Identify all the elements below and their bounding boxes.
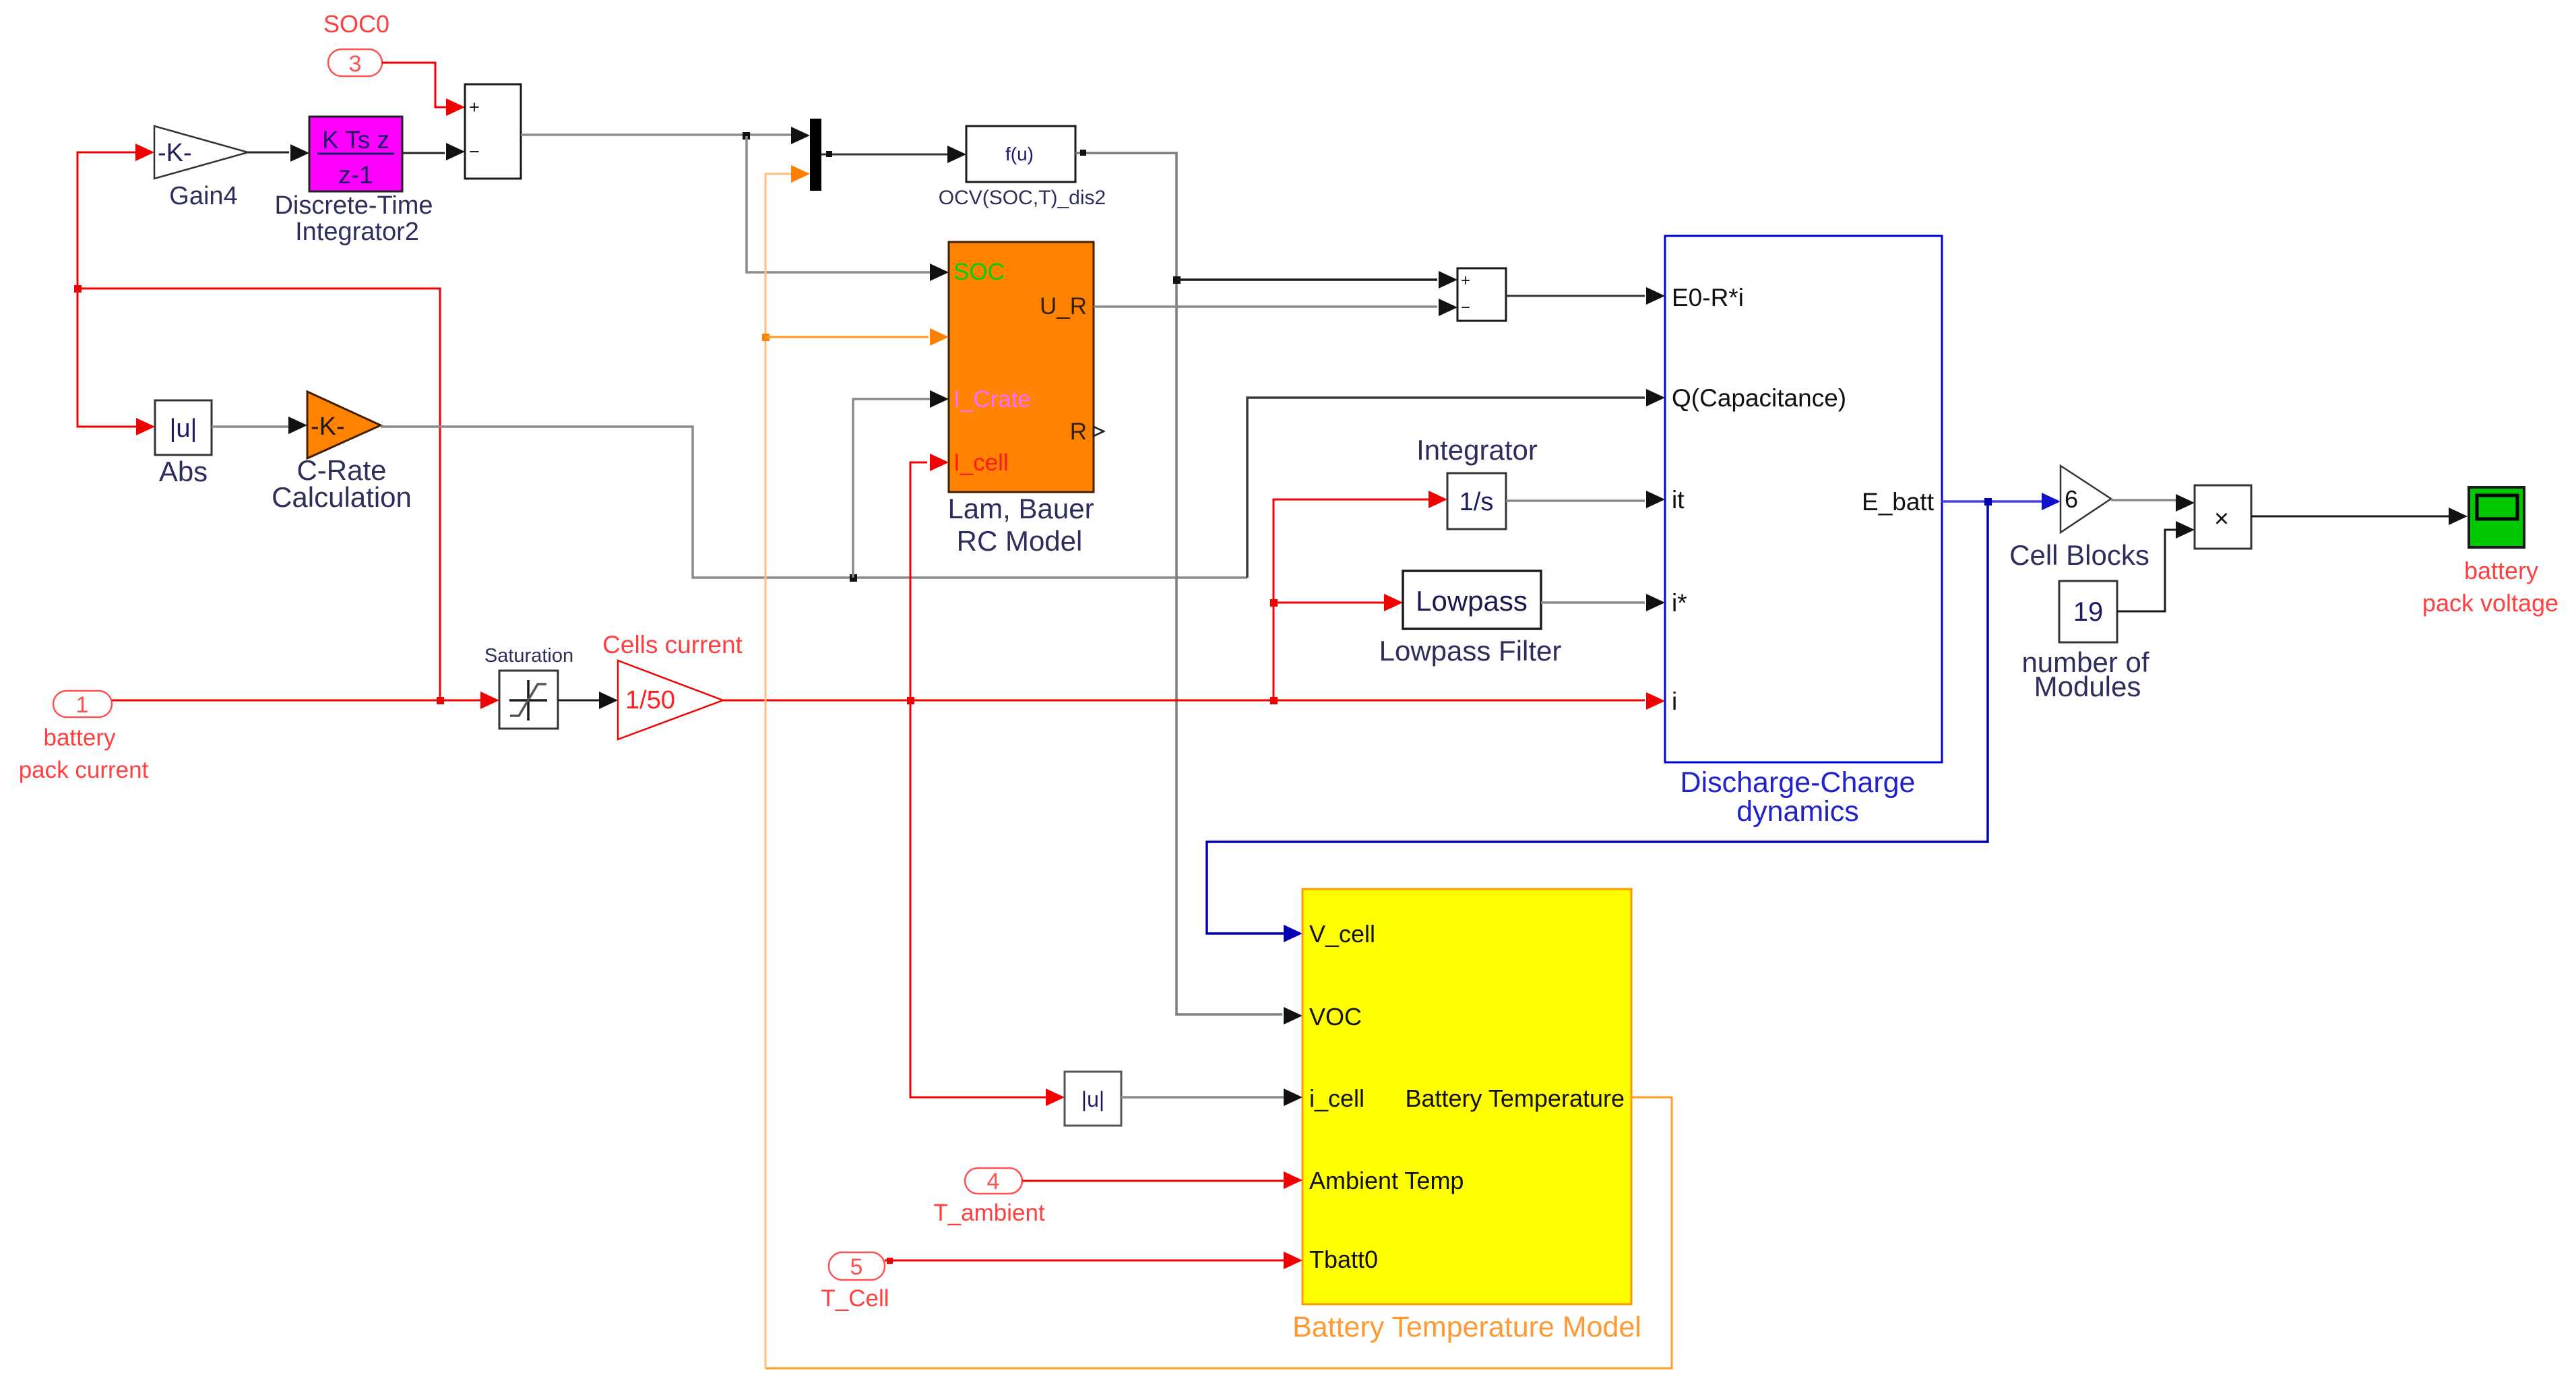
svg-text:Lam, Bauer: Lam, Bauer (947, 493, 1094, 524)
svg-text:-K-: -K- (158, 139, 192, 167)
svg-text:Battery Temperature: Battery Temperature (1406, 1084, 1625, 1112)
inport 4 T_ambient (933, 1168, 1045, 1226)
svg-text:Tbatt0: Tbatt0 (1309, 1246, 1378, 1273)
wire Product to Scope (2251, 508, 2468, 525)
svg-text:z-1: z-1 (338, 161, 373, 189)
wire C-Rate branch up to I_Crate input (853, 390, 949, 578)
svg-text:|u|: |u| (1081, 1087, 1104, 1111)
junction E_batt node (1984, 498, 1992, 506)
svg-text:Gain4: Gain4 (169, 182, 237, 210)
svg-text:−: − (469, 142, 480, 162)
block Discrete-Time Integrator2 (274, 117, 433, 246)
wire battery pack current to Saturation (112, 692, 499, 709)
scope battery pack voltage (2422, 487, 2558, 617)
junction cells current to integrator branch (1270, 697, 1278, 704)
junction C-Rate branch node (850, 574, 857, 582)
wire Cell Blocks to Product input 1 (2111, 494, 2195, 512)
svg-text:|u|: |u| (170, 415, 197, 443)
svg-text:Modules: Modules (2034, 671, 2141, 702)
abs |u| (cell current magnitude) (1065, 1072, 1121, 1126)
subsystem Discharge-Charge dynamics (1665, 236, 1942, 828)
svg-text:+: + (469, 97, 480, 117)
svg-text:-K-: -K- (311, 412, 345, 441)
inport 1 battery pack current (19, 691, 149, 783)
wire battery pack current feedback (red) (77, 152, 440, 700)
svg-text:Lowpass Filter: Lowpass Filter (1379, 635, 1562, 667)
wire orange branch to RC model input 2 (765, 328, 949, 346)
svg-text:Integrator: Integrator (1416, 434, 1538, 466)
svg-text:i: i (1672, 687, 1677, 715)
wire Cells current main line to i input of Discharge-Charge dynamics (723, 692, 1665, 710)
saturation Saturation (484, 645, 573, 729)
wire E_batt branch down and around to V_cell input (dark blue) (1207, 501, 1988, 942)
svg-text:OCV(SOC,T)_dis2: OCV(SOC,T)_dis2 (939, 187, 1106, 209)
wire Sum1 output to Mux input 1 (gray) (521, 127, 810, 144)
mux Mux (810, 119, 821, 191)
svg-text:Calculation: Calculation (272, 481, 412, 513)
abs Abs (155, 400, 212, 487)
wire abs |u| to i_cell input (1121, 1089, 1302, 1106)
inport 5 T_Cell (821, 1252, 889, 1312)
svg-text:T_Cell: T_Cell (821, 1285, 889, 1312)
svg-text:Saturation: Saturation (484, 645, 573, 667)
wire T_ambient to Ambient Temp input (1022, 1171, 1302, 1189)
svg-text:Ambient Temp: Ambient Temp (1309, 1167, 1464, 1194)
svg-text:Discrete-Time: Discrete-Time (274, 191, 433, 220)
gain Cell Blocks (2009, 466, 2149, 571)
junction battery pack current node (437, 697, 444, 704)
svg-text:V_cell: V_cell (1309, 920, 1375, 948)
svg-text:×: × (2214, 505, 2229, 533)
svg-text:pack current: pack current (19, 757, 149, 783)
svg-text:dynamics: dynamics (1736, 795, 1859, 828)
product Product (2195, 485, 2251, 549)
svg-text:4: 4 (987, 1169, 1000, 1194)
svg-text:1/s: 1/s (1459, 488, 1494, 516)
wire U_R output to Sum2 minus input (gray) (1094, 299, 1457, 316)
gain 1/50 Cells current (602, 631, 743, 739)
svg-text:−: − (1461, 299, 1470, 317)
svg-text:R: R (1070, 419, 1087, 445)
wire Abs to C-Rate gain (212, 417, 307, 434)
svg-text:VOC: VOC (1309, 1003, 1362, 1031)
svg-text:6: 6 (2065, 485, 2078, 513)
svg-text:E_batt: E_batt (1862, 488, 1935, 516)
svg-text:T_ambient: T_ambient (933, 1200, 1045, 1226)
svg-text:Discharge-Charge: Discharge-Charge (1680, 766, 1916, 799)
svg-text:Lowpass: Lowpass (1416, 585, 1528, 617)
svg-text:SOC: SOC (953, 259, 1005, 285)
svg-text:K Ts z: K Ts z (322, 126, 389, 154)
svg-text:1/50: 1/50 (625, 686, 675, 714)
wire Integrator to it input (1506, 491, 1665, 508)
svg-text:U_R: U_R (1040, 293, 1087, 319)
junction cells current to I_cell / abs branch (907, 697, 914, 704)
svg-text:pack voltage: pack voltage (2422, 589, 2558, 617)
wire cells current branch up to Integrator 1/s (1274, 491, 1447, 700)
svg-text:i*: i* (1672, 589, 1687, 617)
svg-text:1: 1 (76, 692, 89, 718)
wire 19 to Product input 2 (2117, 521, 2195, 611)
wire branch to Lowpass (1274, 594, 1403, 611)
wire Lowpass to i* input (1541, 594, 1665, 611)
wire T_Cell to Tbatt0 input (885, 1252, 1302, 1269)
gain C-Rate Calculation (272, 392, 412, 513)
svg-text:Battery Temperature Model: Battery Temperature Model (1292, 1311, 1641, 1343)
wire Gain4 to Discrete-Time Integrator2 (248, 144, 309, 162)
svg-text:Cell Blocks: Cell Blocks (2009, 539, 2149, 571)
svg-text:Integrator2: Integrator2 (295, 218, 419, 246)
block Lowpass Filter (1379, 571, 1562, 667)
wire cells current branch to I_cell input (910, 454, 949, 700)
svg-text:it: it (1672, 486, 1685, 514)
svg-text:I_Crate: I_Crate (953, 386, 1031, 412)
wire Sum2 output to E0-R*i input (1506, 287, 1665, 305)
junction OCV branch node (1173, 276, 1181, 284)
wire f(u) output down to VOC input of Battery Temperature Model (1075, 150, 1302, 1024)
svg-text:5: 5 (850, 1254, 863, 1280)
svg-text:Abs: Abs (159, 456, 208, 487)
integrator Integrator 1/s (1416, 434, 1538, 529)
svg-text:RC Model: RC Model (957, 525, 1083, 557)
constant 19 number of Modules (2021, 581, 2149, 702)
svg-text:f(u): f(u) (1005, 144, 1034, 164)
gain Gain4 (154, 126, 248, 210)
wire arrow into Gain4 (135, 144, 154, 161)
wire cells current branch down to abs |u| (910, 700, 1065, 1106)
wire C-Rate output to Q(Capacitance) input of Discharge-Charge dynamics (381, 389, 1665, 578)
wire SOC0 to Sum1 plus input (382, 63, 465, 116)
svg-text:battery: battery (44, 725, 116, 751)
inport 3 SOC0 (323, 10, 389, 77)
wire arrow into Abs (136, 418, 155, 435)
subsystem Battery Temperature Model (1292, 889, 1641, 1343)
wire Battery Temperature output loop to Mux and RC model (orange) (765, 165, 1672, 1368)
svg-text:3: 3 (349, 51, 362, 77)
block OCV(SOC,T)_dis2 (939, 126, 1106, 209)
junction at feedback corner (74, 285, 82, 293)
svg-text:Q(Capacitance): Q(Capacitance) (1672, 384, 1846, 412)
svg-text:Cells current: Cells current (602, 631, 743, 659)
wire Mux output to f(u) (821, 146, 966, 163)
sum Sum1 (465, 84, 521, 179)
wire SOC node down to RC model SOC input (747, 136, 949, 281)
svg-text:battery: battery (2464, 557, 2538, 584)
svg-text:+: + (1461, 272, 1470, 290)
svg-text:19: 19 (2073, 597, 2104, 627)
wire E_batt output to Cell Blocks gain (blue) (1942, 493, 2061, 510)
sum Sum2 (1457, 268, 1506, 321)
subsystem Lam, Bauer RC Model (947, 242, 1104, 557)
svg-text:SOC0: SOC0 (323, 10, 389, 38)
svg-text:E0-R*i: E0-R*i (1672, 284, 1744, 311)
wire Saturation to 1/50 gain (558, 692, 618, 709)
junction SOC node (743, 132, 750, 140)
wire Discrete-Time Integrator2 to Sum1 minus input (402, 143, 465, 160)
junction orange branch node (762, 334, 769, 341)
svg-text:i_cell: i_cell (1309, 1084, 1364, 1112)
svg-text:I_cell: I_cell (953, 450, 1009, 476)
junction lowpass branch (1270, 599, 1278, 607)
wire OCV branch to Sum2 plus input (1176, 271, 1457, 288)
